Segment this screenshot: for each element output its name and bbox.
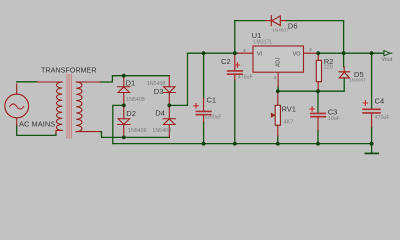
svg-text:220: 220 [324,64,333,70]
svg-text:D3: D3 [154,87,164,96]
svg-text:2200uF: 2200uF [205,115,222,121]
svg-text:AC MAINS: AC MAINS [19,119,55,128]
svg-text:Vout: Vout [381,57,392,63]
svg-text:LM317L: LM317L [253,40,272,46]
svg-text:1N5408: 1N5408 [147,81,166,87]
svg-text:VI: VI [257,51,263,57]
svg-text:VO: VO [293,51,302,57]
svg-text:D6: D6 [288,22,298,31]
svg-text:1N4007: 1N4007 [349,78,366,84]
svg-text:RV1: RV1 [282,105,296,114]
svg-text:D1: D1 [126,78,136,87]
svg-text:TRANSFORMER: TRANSFORMER [41,65,97,74]
svg-text:C2: C2 [221,57,231,66]
svg-text:U1: U1 [252,31,262,40]
svg-text:D2: D2 [126,109,136,118]
svg-text:C1: C1 [206,96,216,105]
svg-text:1N4007: 1N4007 [272,27,289,33]
svg-text:ADJ: ADJ [276,57,282,67]
svg-text:1N5408: 1N5408 [128,128,147,134]
svg-text:10uF: 10uF [328,116,341,122]
svg-text:470uF: 470uF [238,75,254,81]
svg-text:470uF: 470uF [375,115,391,121]
svg-text:1N5408: 1N5408 [126,97,145,103]
svg-text:D4: D4 [155,109,165,118]
svg-text:C4: C4 [375,97,385,106]
svg-text:4K7: 4K7 [284,119,293,125]
svg-text:1N5408: 1N5408 [152,128,171,134]
